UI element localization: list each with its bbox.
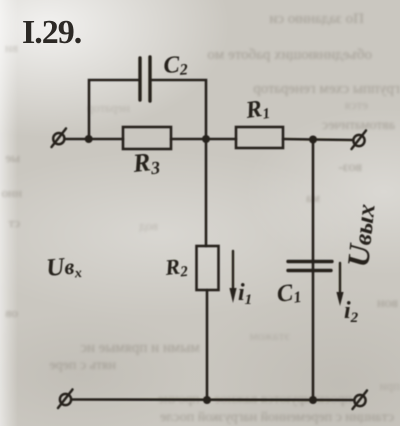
svg-text:i2: i2 — [344, 298, 359, 326]
svg-text:R1: R1 — [243, 95, 271, 125]
svg-text:Uвых: Uвых — [340, 202, 381, 269]
svg-text:Uвх: Uвх — [45, 252, 82, 284]
svg-text:i1: i1 — [238, 280, 252, 308]
svg-text:R3: R3 — [131, 146, 161, 180]
svg-text:C1: C1 — [275, 279, 303, 309]
svg-text:R2: R2 — [163, 253, 189, 282]
svg-text:C2: C2 — [163, 51, 189, 80]
